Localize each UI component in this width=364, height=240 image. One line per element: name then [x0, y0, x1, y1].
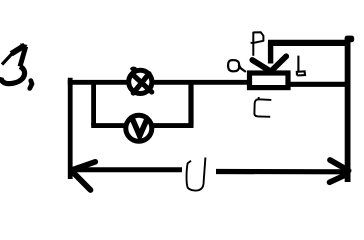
voltage arrow U: left arrowhead: [71, 162, 95, 190]
wire: right vertical: [345, 40, 351, 182]
label 3. (problem number): [1, 43, 32, 88]
voltage arrow U: right arrowhead: [330, 160, 349, 182]
lamp EL (circle with X): [129, 67, 152, 94]
label U: [187, 158, 206, 191]
label P: [251, 32, 264, 56]
wire: top horizontal: [68, 80, 252, 85]
label b: [297, 56, 305, 76]
rheostat wiper arrow: [252, 42, 286, 71]
label a: [228, 60, 246, 72]
voltage arrow U: left segment: [70, 167, 182, 172]
wire: wiper to top-right horizontal: [268, 40, 347, 46]
label C: [254, 97, 271, 117]
wire: voltmeter branch horizontal: [91, 123, 193, 128]
rheostat body (slide resistor rectangle): [250, 73, 289, 88]
junction blob at top-right corner: [345, 36, 355, 43]
wire: left vertical: [68, 78, 73, 179]
voltage arrow U: right segment: [216, 169, 349, 175]
wire: voltmeter branch left vertical: [91, 83, 96, 126]
wire: voltmeter branch right vertical: [188, 83, 193, 126]
rheostat right lead wire: [288, 82, 348, 87]
voltmeter V (circle with V): [126, 115, 152, 141]
